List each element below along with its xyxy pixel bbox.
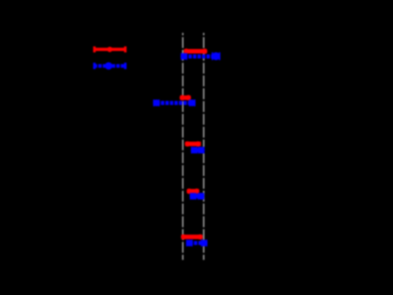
group 2 red errorbar: [180, 95, 191, 100]
legend blue errorbar handle: [94, 62, 126, 69]
group 5 blue errorbar: [186, 240, 208, 247]
group 2 blue errorbar: [153, 100, 196, 107]
group 4 blue errorbar: [190, 193, 205, 200]
group 1 red errorbar: [184, 49, 208, 54]
group 4 red errorbar: [187, 189, 200, 194]
group 3 red errorbar: [185, 141, 201, 146]
legend red errorbar handle: [94, 46, 126, 52]
group 5 red errorbar: [181, 234, 203, 239]
axvline right (gray dashed vertical): [203, 33, 205, 260]
group 1 blue errorbar: [181, 52, 220, 60]
group 3 blue errorbar: [191, 147, 205, 154]
axvline left (gray dashed vertical): [182, 33, 184, 260]
